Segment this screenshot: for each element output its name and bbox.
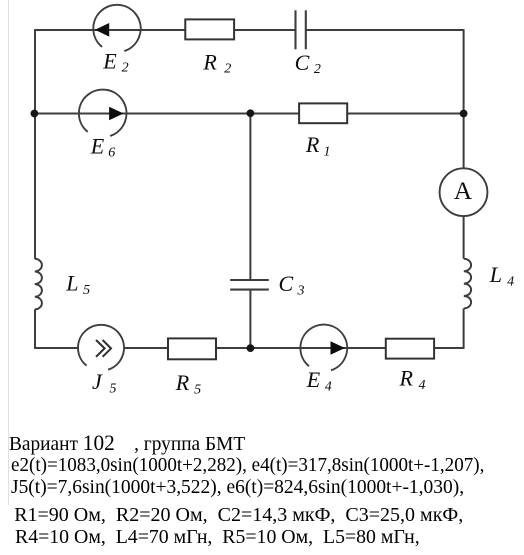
svg-text:E: E (102, 49, 117, 74)
svg-text:L: L (65, 270, 78, 295)
svg-text:2: 2 (122, 61, 129, 76)
svg-text:5: 5 (194, 382, 201, 397)
label R2 (202, 49, 231, 76)
wire right rail between ammeter and L4 (463, 216, 465, 259)
svg-text:6: 6 (108, 146, 115, 161)
label J5 (92, 369, 117, 397)
inductor L4 (464, 259, 471, 309)
wire bottom left horizontal (35, 347, 79, 349)
wire top right horizontal (306, 29, 464, 31)
svg-text:A: A (454, 176, 473, 205)
node left junction (31, 110, 39, 118)
svg-text:R: R (305, 132, 320, 157)
voltage source E2 (93, 5, 140, 51)
wire middle vertical branch upper (249, 113, 251, 280)
label E2 (102, 49, 128, 76)
capacitor C2 (296, 10, 306, 49)
node middle bottom junction (247, 344, 255, 352)
wire left rail lower (34, 309, 36, 349)
resistor R2 (185, 19, 234, 39)
wire middle vertical branch lower (249, 290, 251, 348)
node middle top junction (247, 109, 255, 117)
svg-text:E: E (306, 367, 321, 392)
label E6 (90, 133, 115, 160)
ammeter A (440, 168, 488, 216)
current source J5 (78, 325, 124, 370)
svg-text:4: 4 (507, 275, 514, 290)
label R1 (305, 132, 331, 160)
voltage source E4 (300, 325, 347, 371)
svg-text:3: 3 (297, 283, 305, 298)
wire right rail upper (463, 29, 465, 168)
label C3 (279, 271, 305, 298)
resistor R1 (299, 103, 347, 123)
svg-text:5: 5 (110, 382, 117, 397)
resistor R5 (168, 338, 216, 359)
svg-text:4: 4 (325, 379, 332, 394)
inductor L5 (35, 259, 42, 310)
svg-text:1: 1 (324, 144, 331, 159)
label R5 (175, 370, 201, 398)
svg-text:R: R (202, 49, 217, 74)
label R4 (399, 366, 426, 394)
label L5 (65, 270, 90, 298)
svg-text:2: 2 (224, 61, 231, 76)
svg-text:R: R (175, 370, 190, 395)
svg-text:C: C (295, 50, 310, 75)
resistor R4 (386, 339, 434, 359)
faint page edge line (8, 0, 9, 505)
capacitor C3 (230, 280, 269, 290)
svg-text:C: C (279, 271, 294, 296)
label C2 (295, 50, 321, 77)
svg-text:2: 2 (314, 62, 321, 77)
label E4 (306, 367, 332, 395)
svg-text:L: L (489, 262, 502, 287)
svg-text:J: J (92, 369, 103, 394)
svg-text:5: 5 (83, 283, 90, 298)
voltage source E6 (79, 90, 127, 136)
wire right rail lower (463, 308, 465, 349)
node right junction (460, 110, 468, 118)
wire bottom horizontal right of J5 (124, 347, 465, 349)
svg-text:4: 4 (419, 378, 426, 393)
wire middle horizontal (35, 113, 464, 115)
wire left rail upper (34, 29, 36, 259)
svg-text:R: R (399, 366, 414, 391)
svg-text:E: E (90, 133, 105, 158)
wire top left horizontal (35, 29, 296, 31)
label L4 (489, 262, 514, 290)
